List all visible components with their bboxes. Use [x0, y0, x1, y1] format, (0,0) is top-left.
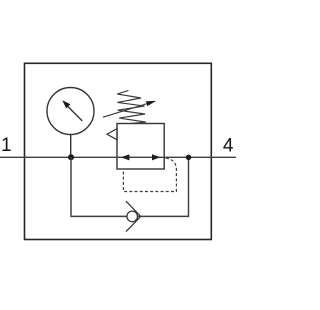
flow path arrow right	[152, 154, 160, 160]
check valve	[126, 201, 141, 231]
enclosure frame	[25, 63, 212, 239]
junction node at gauge branch	[68, 154, 74, 160]
pressure gauge G1	[47, 88, 94, 158]
spring (regulating)	[117, 91, 146, 124]
svg-text:4: 4	[223, 135, 234, 156]
regulator body U1	[117, 124, 164, 170]
wire main flow line port 1 to port 4	[0, 156, 236, 158]
wire bottom branch	[71, 157, 189, 216]
pilot dashed line	[123, 158, 176, 191]
relief vent triangle	[107, 129, 117, 140]
junction node at port 4 branch	[186, 155, 191, 160]
svg-text:1: 1	[1, 135, 12, 156]
flow path arrow left	[121, 154, 129, 160]
adjustment arrow	[103, 101, 156, 117]
